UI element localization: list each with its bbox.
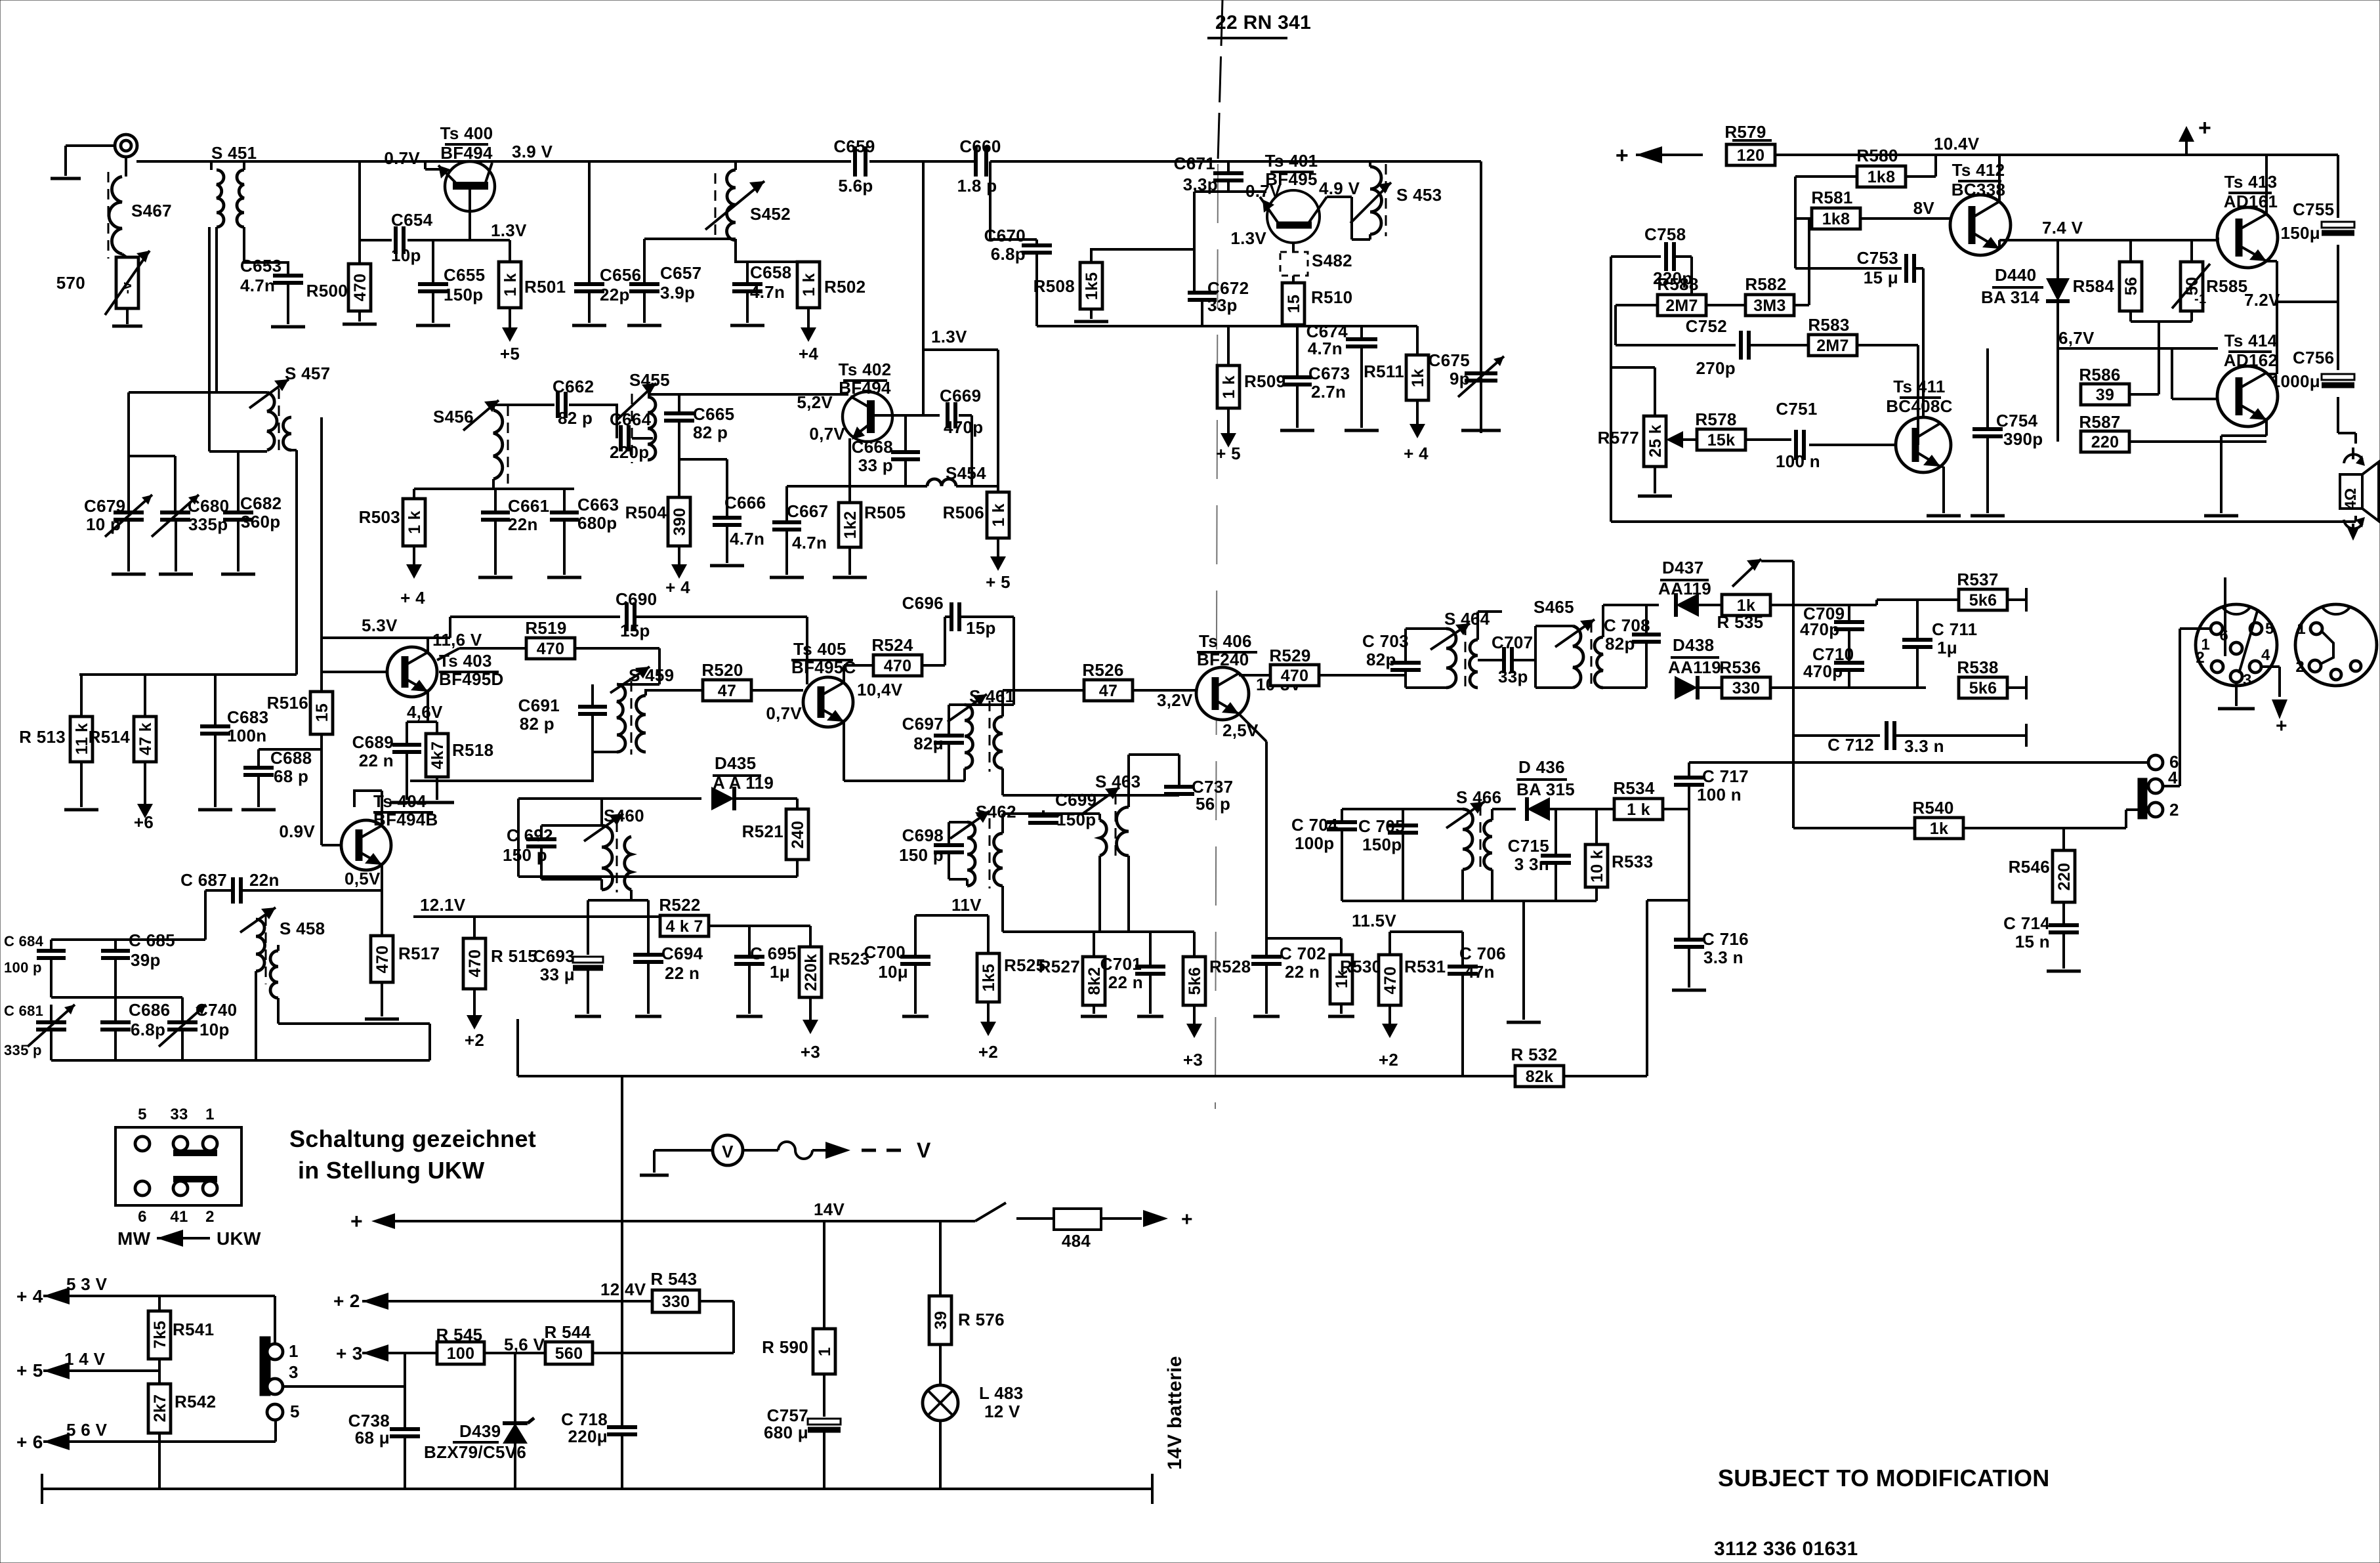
svg-text:+2: +2 xyxy=(1379,1050,1398,1070)
ground (R517) xyxy=(365,982,399,1019)
svg-text:C694: C694 xyxy=(661,944,703,963)
svg-text:3M3: 3M3 xyxy=(1753,297,1786,315)
terminal 2 xyxy=(2148,800,2179,820)
resistor R522 xyxy=(659,895,709,936)
supply arrow +4 (R502) xyxy=(799,308,818,364)
transformer S462 xyxy=(950,802,1016,888)
svg-text:1 k: 1 k xyxy=(1220,375,1238,399)
supply arrow +5 (R506) xyxy=(986,538,1011,592)
wire C758 right xyxy=(1675,257,1692,305)
svg-text:R538: R538 xyxy=(1957,657,1998,677)
svg-text:1.3V: 1.3V xyxy=(491,220,527,240)
wire R538 end xyxy=(2007,676,2026,699)
transistor Ts414 AD162 xyxy=(2217,331,2278,427)
resistor R515 xyxy=(463,917,537,989)
svg-text:R 544: R 544 xyxy=(545,1322,591,1342)
wire R537 row xyxy=(1849,600,1959,605)
potentiometer R585 xyxy=(2172,240,2247,311)
wire main top rail xyxy=(247,160,851,163)
svg-text:2.7n: 2.7n xyxy=(1311,382,1346,402)
svg-text:R533: R533 xyxy=(1612,852,1653,871)
capacitor C705 xyxy=(1358,809,1418,854)
resistor R510 xyxy=(1282,276,1352,325)
wire R544 right xyxy=(593,1301,734,1353)
svg-text:BF494: BF494 xyxy=(440,143,493,163)
wire R527 C701 top xyxy=(1094,930,1150,933)
wire S465 primary bottom xyxy=(1535,660,1573,688)
wire C669 loop xyxy=(959,415,972,486)
svg-text:BF495: BF495 xyxy=(1265,169,1318,189)
svg-text:7.4 V: 7.4 V xyxy=(2042,218,2083,238)
wire S461 primary bottom xyxy=(844,768,965,781)
switch contact 1 xyxy=(267,1341,299,1361)
capacitor C716 xyxy=(1674,929,1749,967)
capacitor C695 xyxy=(734,944,797,982)
wire 11V row xyxy=(915,895,988,955)
wire antenna to S451 xyxy=(126,157,211,177)
svg-text:3112 336 01631: 3112 336 01631 xyxy=(1714,1538,1858,1560)
svg-text:56 p: 56 p xyxy=(1196,794,1230,814)
svg-text:C 702: C 702 xyxy=(1280,944,1326,963)
svg-text:R500: R500 xyxy=(306,281,348,301)
capacitor C690 xyxy=(450,589,657,640)
wire C718 bottom xyxy=(621,1434,623,1489)
ground (C688) xyxy=(241,775,276,810)
resistor R506 xyxy=(943,350,1009,538)
svg-text:+3: +3 xyxy=(801,1042,820,1062)
resistor R531 xyxy=(1379,955,1446,1005)
svg-text:C658: C658 xyxy=(750,262,791,282)
svg-text:C 705: C 705 xyxy=(1358,816,1405,836)
trimmer C675 xyxy=(1429,350,1504,397)
capacitor C658 xyxy=(732,262,791,302)
svg-text:S 457: S 457 xyxy=(285,364,330,383)
svg-text:C 714: C 714 xyxy=(2003,913,2050,933)
svg-text:+ 3: + 3 xyxy=(336,1343,363,1364)
wire det out row R540 xyxy=(1793,827,1914,829)
svg-text:R524: R524 xyxy=(871,635,913,655)
svg-text:470: 470 xyxy=(1381,967,1400,995)
wire Ts406 collector xyxy=(1239,674,1271,675)
wire S462 sec to C699 xyxy=(1003,814,1043,833)
trimmer C679 xyxy=(84,495,152,537)
svg-text:330: 330 xyxy=(1732,679,1761,698)
svg-text:R534: R534 xyxy=(1613,778,1655,798)
wire Ts412 collector up xyxy=(1998,155,2001,201)
svg-text:39: 39 xyxy=(2096,386,2114,404)
svg-text:C715: C715 xyxy=(1508,836,1549,856)
transformer S451 primary xyxy=(211,143,257,227)
resistor R519 xyxy=(437,618,575,660)
switch contact 5 xyxy=(267,1402,300,1421)
fuse 484 xyxy=(1016,1209,1193,1251)
svg-text:4.7n: 4.7n xyxy=(750,282,785,302)
supply arrow +3 (R523) xyxy=(801,997,820,1062)
svg-text:335p: 335p xyxy=(188,514,228,534)
antenna input jack xyxy=(66,135,137,176)
svg-text:5: 5 xyxy=(290,1402,300,1421)
capacitor C684 xyxy=(4,933,66,976)
svg-text:R508: R508 xyxy=(1033,276,1075,296)
wire S457 left leg xyxy=(129,392,267,511)
wire S461 secondary bottom xyxy=(1003,768,1179,795)
capacitor C706 xyxy=(1448,932,1506,982)
svg-text:R 513: R 513 xyxy=(19,727,66,747)
svg-text:5: 5 xyxy=(2265,620,2274,638)
svg-text:+ 5: + 5 xyxy=(1216,444,1241,463)
capacitor C674 xyxy=(1306,322,1377,358)
supply row +3 xyxy=(336,1343,437,1364)
svg-text:2: 2 xyxy=(2196,649,2205,667)
wire R529 right xyxy=(1319,675,1406,688)
svg-text:C697: C697 xyxy=(902,714,944,734)
wire emitter row xyxy=(787,485,998,488)
svg-text:C666: C666 xyxy=(724,493,766,512)
capacitor C715 xyxy=(1508,809,1571,874)
wire rail to R500 xyxy=(358,161,361,264)
svg-text:AA119: AA119 xyxy=(1658,579,1711,598)
svg-text:11.5V: 11.5V xyxy=(1352,911,1396,930)
svg-text:BF495D: BF495D xyxy=(439,669,504,689)
label C717 xyxy=(1697,766,1749,804)
wire R577 top loop xyxy=(1611,257,1655,522)
svg-text:3,2V: 3,2V xyxy=(1157,690,1193,710)
wire R530 row xyxy=(1266,938,1341,955)
svg-text:C691: C691 xyxy=(518,696,560,715)
svg-text:S467: S467 xyxy=(131,201,172,220)
svg-text:390: 390 xyxy=(671,508,689,536)
ground (R505) xyxy=(833,547,867,577)
wire C665 to R504 xyxy=(678,459,680,497)
wire R536 right xyxy=(1770,686,1926,689)
svg-text:C 681: C 681 xyxy=(4,1003,43,1019)
svg-text:Ts 414: Ts 414 xyxy=(2224,331,2278,350)
supply row +6 xyxy=(16,1420,276,1452)
capacitor C669 feedback xyxy=(925,386,983,437)
capacitor C692 xyxy=(503,825,602,865)
svg-text:470: 470 xyxy=(1281,667,1309,685)
svg-text:C752: C752 xyxy=(1686,316,1727,336)
capacitor C710 xyxy=(1803,629,1864,681)
coil S454 xyxy=(927,463,986,486)
wire S457 secondary bottom xyxy=(291,449,297,451)
svg-text:8V: 8V xyxy=(1913,198,1935,218)
wire +4 corner xyxy=(274,1296,276,1344)
svg-text:R526: R526 xyxy=(1082,660,1123,680)
ground (C666) xyxy=(710,525,744,566)
wire Ts403 emitter xyxy=(407,692,437,722)
svg-text:+: + xyxy=(2276,715,2287,737)
svg-text:0.9V: 0.9V xyxy=(279,822,315,841)
transformer S461 xyxy=(948,686,1014,772)
wire S465 sec top xyxy=(1603,605,1659,637)
svg-text:14V: 14V xyxy=(814,1199,845,1219)
wire C695 R523 node xyxy=(749,926,810,947)
transformer S464 xyxy=(1406,609,1490,690)
capacitor C659 xyxy=(833,136,875,196)
supply row +2 xyxy=(333,1280,646,1311)
wire Ts414 collector down xyxy=(2221,420,2266,513)
ground (C754) xyxy=(1971,436,2005,516)
capacitor C670 xyxy=(984,161,1052,264)
resistor R517 xyxy=(371,890,440,982)
svg-text:10μ: 10μ xyxy=(878,962,908,982)
supply arrow +2 (R525) xyxy=(978,1002,998,1062)
capacitor C657 xyxy=(629,263,701,302)
svg-text:Ts 400: Ts 400 xyxy=(440,123,493,143)
resistor R583 xyxy=(1749,315,1918,445)
svg-text:150 p: 150 p xyxy=(899,845,944,865)
wire Ts403 collector up to C690 xyxy=(428,617,450,638)
capacitor C737 xyxy=(1164,777,1233,814)
wire emitter bus Ts401 xyxy=(1142,325,1417,326)
resistor R538 xyxy=(1957,657,2007,698)
svg-text:S465: S465 xyxy=(1534,597,1574,617)
resistor R514 xyxy=(89,675,156,762)
potentiometer R577 xyxy=(1598,416,1683,467)
svg-text:22 n: 22 n xyxy=(359,751,394,770)
svg-text:C667: C667 xyxy=(787,501,828,521)
wire rail C660 right xyxy=(990,160,1481,163)
switch 14V xyxy=(975,1203,1006,1221)
svg-text:R 543: R 543 xyxy=(651,1269,698,1289)
svg-text:S452: S452 xyxy=(750,204,791,224)
wire C753 to Ts411 collector xyxy=(1915,268,1923,417)
svg-text:R542: R542 xyxy=(175,1392,216,1411)
connector DIN female xyxy=(2295,604,2377,686)
capacitor C656 xyxy=(574,161,641,304)
svg-text:C698: C698 xyxy=(902,825,944,845)
svg-text:UKW: UKW xyxy=(217,1228,261,1249)
svg-text:C753: C753 xyxy=(1857,248,1898,268)
svg-text:33p: 33p xyxy=(1207,295,1238,315)
svg-text:C693: C693 xyxy=(533,946,575,966)
wire R537 end xyxy=(2007,588,2026,612)
wire C698 bottom xyxy=(949,852,967,886)
node 1.3V wire xyxy=(923,327,998,350)
svg-text:S 459: S 459 xyxy=(629,665,674,685)
svg-text:R584: R584 xyxy=(2073,276,2115,296)
svg-text:220μ: 220μ xyxy=(568,1427,608,1446)
coil S467 xyxy=(108,172,172,259)
wire bottom rail xyxy=(42,1474,1152,1504)
ground (Ts411) xyxy=(1927,514,1961,518)
svg-text:+ 2: + 2 xyxy=(333,1291,360,1311)
wire R578 to R577 xyxy=(1677,438,1697,441)
svg-text:BF494: BF494 xyxy=(839,378,891,398)
svg-text:10.4V: 10.4V xyxy=(1934,134,1980,154)
svg-text:C659: C659 xyxy=(833,136,875,156)
svg-text:150p: 150p xyxy=(1362,835,1402,854)
svg-text:5.3V: 5.3V xyxy=(362,615,398,635)
svg-text:100 n: 100 n xyxy=(1776,451,1820,471)
svg-text:BA 314: BA 314 xyxy=(1981,287,2039,307)
svg-text:82p: 82p xyxy=(1605,634,1635,654)
svg-text:570: 570 xyxy=(56,273,85,293)
resistor R505 xyxy=(839,503,906,547)
label 22 RN 341 xyxy=(1207,12,1311,38)
svg-text:D 436: D 436 xyxy=(1518,757,1565,777)
supply arrow +6 (R514) xyxy=(134,762,154,832)
resistor R535 xyxy=(1717,594,1770,632)
capacitor C756 xyxy=(2271,348,2354,391)
svg-text:0,7V: 0,7V xyxy=(766,703,802,723)
capacitor C696 xyxy=(902,593,996,638)
svg-text:560: 560 xyxy=(555,1344,583,1363)
wire S456 bottom xyxy=(492,479,495,489)
svg-text:A A 119: A A 119 xyxy=(713,773,774,793)
svg-text:680p: 680p xyxy=(577,513,617,533)
switch bar terminals xyxy=(2138,778,2147,819)
svg-text:4.7n: 4.7n xyxy=(1308,339,1343,358)
connector DIN male xyxy=(2196,577,2277,689)
ground (R500) xyxy=(343,311,377,324)
wire speaker top xyxy=(2338,397,2356,444)
wire C757 bottom xyxy=(823,1430,825,1489)
svg-text:47: 47 xyxy=(718,682,736,700)
svg-text:3.9 V: 3.9 V xyxy=(512,142,553,161)
svg-text:MW: MW xyxy=(117,1228,151,1249)
svg-text:C655: C655 xyxy=(444,265,485,285)
capacitor C755 xyxy=(2281,199,2355,243)
wire S451 to S457 xyxy=(209,227,267,451)
svg-text:+5: +5 xyxy=(500,344,520,364)
node 0.7V wire xyxy=(1194,181,1282,201)
wire Ts402 base xyxy=(648,393,848,396)
svg-text:R577: R577 xyxy=(1598,428,1639,448)
wire Ts412 emitter down xyxy=(1999,240,2011,249)
svg-text:C 712: C 712 xyxy=(1827,735,1874,755)
capacitor C661 xyxy=(481,489,549,534)
svg-text:5: 5 xyxy=(138,1106,147,1123)
svg-text:680 μ: 680 μ xyxy=(764,1423,808,1442)
ground (C655) xyxy=(416,291,450,325)
wire DIN pin1 xyxy=(2180,629,2211,786)
svg-text:1 k: 1 k xyxy=(501,273,520,297)
svg-text:1: 1 xyxy=(816,1347,834,1356)
svg-text:S 458: S 458 xyxy=(280,919,325,938)
svg-text:S455: S455 xyxy=(629,370,670,390)
svg-text:1: 1 xyxy=(205,1106,215,1123)
resistor R528 xyxy=(1183,932,1251,1005)
resistor R530 xyxy=(1330,955,1381,1004)
supply arrow +4 (R511) xyxy=(1404,400,1429,463)
wire Ts402 collector xyxy=(875,414,925,417)
wire dashed centre line xyxy=(1215,0,1222,1109)
svg-text:C696: C696 xyxy=(902,593,944,613)
wire IF bus xyxy=(414,488,574,490)
transistor Ts404 BF494B xyxy=(341,791,438,888)
svg-text:C700: C700 xyxy=(864,942,906,962)
svg-text:1μ: 1μ xyxy=(770,962,790,982)
wire MW tank top bus xyxy=(51,938,205,941)
svg-text:5,2V: 5,2V xyxy=(797,392,833,412)
svg-text:D435: D435 xyxy=(715,753,756,773)
svg-text:C 684: C 684 xyxy=(4,933,44,949)
svg-text:+2: +2 xyxy=(978,1042,998,1062)
svg-text:R528: R528 xyxy=(1209,957,1251,976)
svg-text:0.7V: 0.7V xyxy=(384,148,420,168)
resistor R520 xyxy=(701,660,751,701)
wire R580 left loop xyxy=(1795,177,1857,268)
svg-text:R583: R583 xyxy=(1808,315,1849,335)
wire D436 right xyxy=(1545,808,1613,810)
svg-text:BC338: BC338 xyxy=(1952,180,2005,199)
wire C670 to emitter bus xyxy=(1037,253,1142,326)
wire L483 bottom xyxy=(939,1421,942,1489)
svg-text:+4: +4 xyxy=(799,344,818,364)
wire C699 right xyxy=(1043,814,1100,820)
resistor R501 xyxy=(499,240,566,308)
wire C690 right xyxy=(635,617,807,684)
resistor R502 xyxy=(797,262,866,308)
svg-text:4: 4 xyxy=(2168,768,2178,787)
wire det vert xyxy=(1674,762,1704,900)
svg-text:C682: C682 xyxy=(240,493,282,513)
svg-text:15p: 15p xyxy=(620,621,650,640)
wire 14V rail xyxy=(350,1199,975,1233)
wire S460 secondary bottom xyxy=(630,890,633,900)
wire Ts413 emitter to 7.2V xyxy=(2266,261,2338,302)
capacitor C662 xyxy=(553,377,594,428)
wire 6.7V row xyxy=(2058,290,2280,348)
svg-text:4.7n: 4.7n xyxy=(730,529,764,549)
svg-text:R531: R531 xyxy=(1404,957,1446,976)
resistor R543 xyxy=(622,1269,734,1312)
svg-text:82k: 82k xyxy=(1526,1068,1554,1086)
svg-text:BZX79/C5V6: BZX79/C5V6 xyxy=(424,1442,526,1462)
svg-text:R503: R503 xyxy=(359,507,400,527)
svg-text:470p: 470p xyxy=(1803,661,1843,681)
svg-text:C661: C661 xyxy=(508,496,549,516)
svg-text:+ 4: + 4 xyxy=(400,588,425,608)
svg-text:R581: R581 xyxy=(1811,188,1852,207)
svg-text:33: 33 xyxy=(170,1106,188,1123)
svg-text:33p: 33p xyxy=(1498,667,1528,686)
resistor R546 xyxy=(2009,828,2075,902)
svg-text:220k: 220k xyxy=(802,954,820,991)
wire S463 right xyxy=(1127,856,1130,932)
svg-text:22n: 22n xyxy=(508,514,538,534)
svg-text:+ 5: + 5 xyxy=(986,572,1011,592)
resistor R511 xyxy=(1364,326,1429,400)
supply row +4 xyxy=(16,1274,275,1306)
svg-text:360p: 360p xyxy=(241,512,280,531)
resistor R509 xyxy=(1217,326,1285,408)
capacitor C688 xyxy=(243,748,322,786)
svg-text:+ 4: + 4 xyxy=(16,1286,43,1306)
svg-text:41: 41 xyxy=(170,1208,188,1226)
svg-text:R517: R517 xyxy=(398,944,440,963)
ground (570) xyxy=(112,308,142,326)
svg-text:BF495C: BF495C xyxy=(791,657,856,677)
varistor 570 xyxy=(56,251,150,315)
svg-text:R527: R527 xyxy=(1039,957,1080,976)
wire S451 primary bottom to S457 xyxy=(215,227,218,393)
wire C687 row xyxy=(205,890,382,940)
wire S458 secondary bottom xyxy=(278,998,430,1024)
svg-text:2: 2 xyxy=(2169,800,2179,820)
svg-text:Ts 412: Ts 412 xyxy=(1952,160,2005,180)
svg-text:3.3 n: 3.3 n xyxy=(1703,948,1743,967)
svg-text:22n: 22n xyxy=(249,870,280,890)
wire C710 bottom xyxy=(1848,670,1850,688)
svg-text:C 695: C 695 xyxy=(750,944,797,963)
wire 12.1V row xyxy=(413,895,661,917)
wire C705 bottom xyxy=(1402,833,1404,901)
svg-text:12.1V: 12.1V xyxy=(420,895,466,915)
svg-text:82 p: 82 p xyxy=(520,714,554,734)
